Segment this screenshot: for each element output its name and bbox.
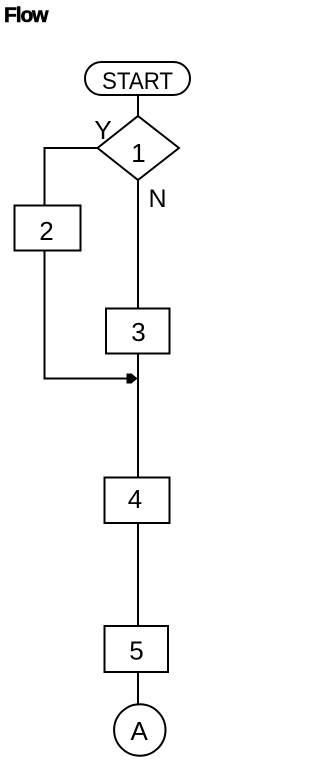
- wire Y branch: decision left vertex west then down to process 2: [45, 148, 99, 206]
- wire N branch: decision bottom vertex to process 3: [137, 180, 139, 309]
- svg-text:START: START: [102, 68, 173, 95]
- svg-text:3: 3: [131, 317, 145, 347]
- svg-text:5: 5: [129, 636, 143, 666]
- process 3: [106, 309, 170, 354]
- process 2: [15, 206, 81, 251]
- terminator START: [85, 62, 190, 95]
- svg-text:A: A: [131, 716, 149, 746]
- wire START to decision 1: [137, 95, 139, 117]
- wire process 5 to connector A: [137, 672, 139, 706]
- wire process 3 to process 4 (through junction): [137, 354, 139, 479]
- svg-text:1: 1: [131, 138, 145, 168]
- wire process 4 to process 5: [137, 523, 139, 627]
- svg-text:Flow: Flow: [4, 4, 49, 27]
- svg-text:2: 2: [39, 216, 53, 246]
- connector A: [114, 704, 165, 755]
- wire process 2 down then right to junction: [45, 251, 129, 379]
- svg-text:N: N: [148, 185, 166, 213]
- process 4: [105, 478, 170, 524]
- process 5: [105, 626, 169, 672]
- svg-text:4: 4: [128, 484, 142, 514]
- decision 1 (diamond): [98, 116, 180, 180]
- arrowhead at junction: [127, 374, 138, 384]
- svg-text:Y: Y: [94, 115, 111, 145]
